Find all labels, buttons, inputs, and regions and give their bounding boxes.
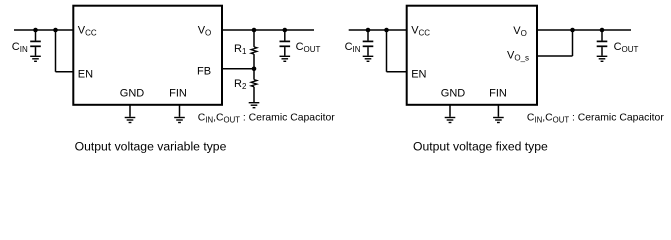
node input-EN junction (right) <box>384 28 389 33</box>
wire VO_S sense <box>537 30 573 56</box>
wire EN branch <box>56 30 74 72</box>
node input-CIN junction (right) <box>366 28 371 33</box>
svg-text:VCC: VCC <box>78 25 97 38</box>
ground (below FIN pin left) <box>174 118 185 123</box>
wire FIN pin (left) <box>179 105 181 117</box>
wire GND pin (left) <box>129 105 131 117</box>
wire input right <box>349 29 407 31</box>
svg-text:CIN,COUT : Ceramic Capacitor: CIN,COUT : Ceramic Capacitor <box>198 113 335 125</box>
ground (below CIN left) <box>30 56 41 61</box>
node input-EN junction <box>53 28 58 33</box>
ground (below R2) <box>249 103 260 108</box>
op-amp U2 (regulator IC box, right) <box>407 6 537 105</box>
wire FIN pin (right) <box>497 105 499 117</box>
node VO-COUT junction <box>283 28 288 33</box>
wire VO output (right) <box>537 29 631 31</box>
ground (below GND pin left) <box>125 118 136 123</box>
capacitor C_IN (right) <box>363 30 374 56</box>
resistor R2 <box>251 69 257 102</box>
svg-text:EN: EN <box>78 69 93 81</box>
svg-text:VCC: VCC <box>411 25 430 38</box>
svg-text:VO: VO <box>513 25 527 38</box>
node VO-COUT junction (right) <box>600 28 605 33</box>
wire input left <box>14 29 73 31</box>
ground (below COUT left) <box>280 56 291 61</box>
capacitor C_OUT (right) <box>597 30 608 56</box>
svg-text:R1: R1 <box>234 43 247 56</box>
svg-text:CIN,COUT : Ceramic Capacitor: CIN,COUT : Ceramic Capacitor <box>527 113 664 125</box>
wire GND pin (right) <box>449 105 451 117</box>
svg-text:EN: EN <box>411 69 426 81</box>
svg-text:COUT: COUT <box>296 41 321 54</box>
svg-text:COUT: COUT <box>614 41 639 54</box>
node FB junction <box>252 67 257 72</box>
svg-text:Output voltage variable type: Output voltage variable type <box>75 140 227 154</box>
svg-text:GND: GND <box>120 88 145 100</box>
svg-text:Output voltage fixed type: Output voltage fixed type <box>413 140 548 154</box>
resistor R1 <box>251 30 257 69</box>
ground (below FIN pin right) <box>493 118 504 123</box>
svg-text:GND: GND <box>441 88 466 100</box>
svg-text:R2: R2 <box>234 78 247 91</box>
svg-text:FIN: FIN <box>489 88 507 100</box>
node VO-R1 junction <box>252 28 257 33</box>
ground (below GND pin right) <box>445 118 456 123</box>
capacitor C_IN (left) <box>30 30 41 56</box>
node input-CIN junction <box>33 28 38 33</box>
svg-text:VO: VO <box>198 25 212 38</box>
svg-text:CIN: CIN <box>345 41 361 54</box>
op-amp U1 (regulator IC box, left) <box>73 6 222 105</box>
node VO-VO_S junction <box>570 28 575 33</box>
ground (below CIN right) <box>363 56 374 61</box>
wire VO output (left) <box>222 29 314 31</box>
svg-text:VO_s: VO_s <box>507 49 529 62</box>
wire EN branch (right) <box>387 30 407 72</box>
svg-text:CIN: CIN <box>12 41 28 54</box>
svg-text:FB: FB <box>197 66 211 78</box>
svg-text:FIN: FIN <box>169 88 187 100</box>
capacitor C_OUT (left) <box>280 30 291 56</box>
ground (below COUT right) <box>597 56 608 61</box>
wire FB <box>222 68 254 70</box>
